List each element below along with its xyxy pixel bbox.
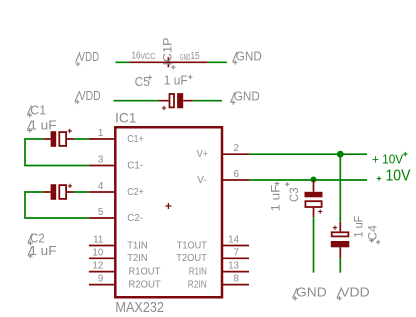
svg-text:1: 1 bbox=[98, 128, 103, 139]
svg-text:GND: GND bbox=[234, 88, 260, 103]
svg-text:15: 15 bbox=[191, 51, 200, 62]
svg-text:R1OUT: R1OUT bbox=[129, 267, 161, 278]
svg-text:IC1: IC1 bbox=[115, 109, 137, 125]
svg-text:VDD: VDD bbox=[79, 49, 100, 64]
svg-text:1 uF: 1 uF bbox=[29, 244, 56, 258]
svg-text:1 uF: 1 uF bbox=[164, 73, 188, 87]
svg-text:10V: 10V bbox=[386, 168, 412, 185]
svg-text:1 uF: 1 uF bbox=[29, 119, 56, 133]
svg-text:C4: C4 bbox=[366, 225, 380, 241]
svg-text:12: 12 bbox=[92, 261, 103, 272]
svg-text:GND: GND bbox=[180, 53, 190, 62]
svg-text:5: 5 bbox=[98, 207, 104, 218]
svg-text:1 uF: 1 uF bbox=[268, 185, 282, 212]
svg-text:GND: GND bbox=[296, 284, 327, 299]
svg-text:V+: V+ bbox=[197, 149, 209, 160]
svg-text:V-: V- bbox=[197, 175, 207, 186]
svg-text:+ 10V: + 10V bbox=[372, 151, 403, 166]
svg-text:9: 9 bbox=[98, 274, 103, 285]
svg-text:T2OUT: T2OUT bbox=[176, 253, 207, 264]
svg-text:R2IN: R2IN bbox=[188, 280, 207, 291]
svg-text:C5: C5 bbox=[135, 75, 150, 89]
svg-text:1 uF: 1 uF bbox=[351, 216, 365, 238]
svg-text:2: 2 bbox=[234, 143, 239, 154]
svg-text:7: 7 bbox=[234, 247, 239, 258]
svg-text:C1-: C1- bbox=[127, 160, 143, 171]
svg-text:R1IN: R1IN bbox=[189, 267, 207, 278]
svg-text:C2+: C2+ bbox=[127, 187, 144, 198]
svg-text:T1OUT: T1OUT bbox=[177, 240, 207, 251]
svg-text:VDD: VDD bbox=[340, 284, 369, 299]
svg-text:C1: C1 bbox=[30, 104, 46, 118]
svg-text:VDD: VDD bbox=[79, 88, 101, 103]
svg-text:6: 6 bbox=[234, 169, 240, 180]
svg-text:3: 3 bbox=[98, 155, 104, 166]
svg-text:GND: GND bbox=[236, 48, 262, 63]
svg-text:10: 10 bbox=[92, 247, 103, 258]
svg-text:T2IN: T2IN bbox=[127, 253, 147, 264]
svg-text:IC1P: IC1P bbox=[163, 37, 175, 65]
svg-text:C3: C3 bbox=[287, 187, 301, 202]
svg-text:MAX232: MAX232 bbox=[115, 300, 164, 316]
svg-text:C1+: C1+ bbox=[127, 134, 144, 145]
svg-text:14: 14 bbox=[228, 235, 239, 246]
svg-text:C2-: C2- bbox=[127, 213, 143, 224]
svg-text:8: 8 bbox=[234, 274, 240, 285]
svg-text:13: 13 bbox=[228, 261, 239, 272]
svg-text:T1IN: T1IN bbox=[127, 240, 147, 251]
svg-text:R2OUT: R2OUT bbox=[129, 280, 161, 291]
svg-text:4: 4 bbox=[98, 181, 104, 192]
svg-text:11: 11 bbox=[93, 235, 103, 246]
svg-text:VCC: VCC bbox=[140, 52, 155, 61]
